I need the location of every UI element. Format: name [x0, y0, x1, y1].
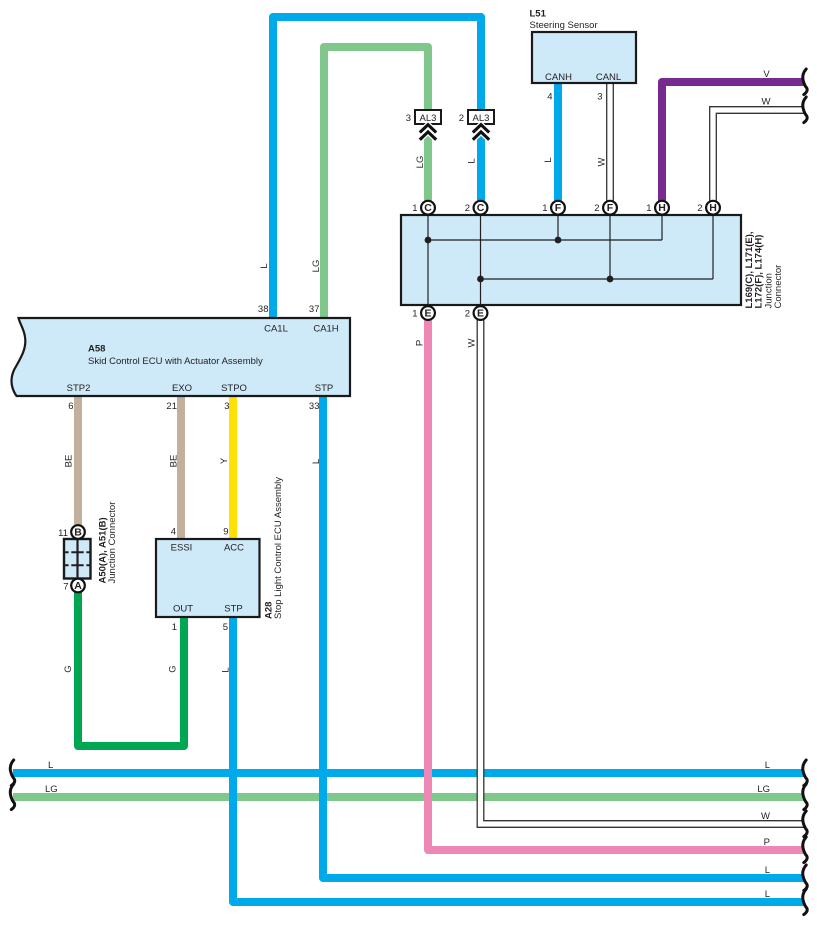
svg-text:1: 1 — [646, 203, 651, 214]
wire L blue CANH to 1F — [554, 83, 562, 202]
svg-text:STP2: STP2 — [67, 383, 91, 394]
svg-text:3: 3 — [224, 401, 229, 412]
svg-text:LG: LG — [45, 784, 58, 795]
svg-text:4: 4 — [171, 527, 176, 538]
svg-text:F: F — [607, 202, 614, 214]
svg-text:Stop Light Control ECU Assembl: Stop Light Control ECU Assembly — [273, 477, 284, 619]
A28 stop light control ECU box — [156, 539, 260, 617]
svg-text:EXO: EXO — [172, 383, 192, 394]
svg-text:W: W — [762, 97, 771, 108]
svg-text:Steering Sensor: Steering Sensor — [530, 20, 598, 31]
svg-text:2: 2 — [465, 203, 470, 214]
pin 2F — [594, 201, 617, 215]
wire LG green top: CA1H to AL3(3) — [324, 47, 428, 318]
svg-text:2: 2 — [594, 203, 599, 214]
svg-text:33: 33 — [309, 401, 320, 412]
pin 1C — [412, 201, 435, 215]
svg-text:21: 21 — [166, 401, 177, 412]
A58 box skid control ECU — [12, 318, 350, 396]
svg-text:LG: LG — [311, 260, 322, 273]
svg-text:W: W — [597, 157, 608, 166]
svg-text:4: 4 — [547, 92, 552, 103]
pin 1E — [412, 306, 435, 320]
svg-text:E: E — [477, 307, 484, 319]
svg-text:ESSI: ESSI — [171, 543, 193, 554]
pin 2E — [465, 306, 488, 320]
svg-text:V: V — [763, 69, 770, 80]
wire L blue from A28 STP pin 5 — [233, 617, 804, 902]
pin 1F — [542, 201, 565, 215]
svg-text:STPO: STPO — [221, 383, 247, 394]
svg-text:9: 9 — [223, 527, 228, 538]
svg-text:L51: L51 — [530, 9, 547, 20]
svg-text:ACC: ACC — [224, 543, 244, 554]
svg-text:6: 6 — [68, 401, 73, 412]
L51 steering sensor box — [532, 32, 636, 83]
svg-text:3: 3 — [406, 113, 411, 124]
wire W white to 2H — [713, 110, 804, 202]
wire L blue from A58 STP pin 33 — [323, 396, 804, 878]
svg-text:AL3: AL3 — [420, 113, 437, 124]
svg-text:G: G — [168, 665, 179, 672]
svg-text:CA1L: CA1L — [264, 324, 288, 335]
svg-text:5: 5 — [223, 622, 228, 633]
torn marks left — [10, 760, 14, 810]
svg-text:A58: A58 — [88, 344, 105, 355]
svg-text:LG: LG — [757, 784, 770, 795]
svg-text:L: L — [311, 459, 322, 464]
svg-text:CANL: CANL — [596, 72, 621, 83]
svg-text:F: F — [555, 202, 562, 214]
svg-text:Junction Connector: Junction Connector — [107, 502, 118, 584]
svg-text:LG: LG — [415, 156, 426, 169]
svg-text:37: 37 — [309, 304, 320, 315]
svg-text:11: 11 — [58, 528, 68, 539]
pin 2C — [465, 201, 488, 215]
svg-text:P: P — [764, 837, 770, 848]
svg-text:1: 1 — [412, 203, 417, 214]
svg-text:7: 7 — [63, 582, 68, 593]
pin 1H — [646, 201, 669, 215]
svg-text:W: W — [761, 811, 770, 822]
svg-text:1: 1 — [542, 203, 547, 214]
svg-text:L: L — [543, 157, 554, 162]
junction connector box L169/L171/L172/L174 — [401, 215, 741, 305]
svg-text:STP: STP — [224, 604, 242, 615]
svg-text:C: C — [477, 202, 485, 214]
pin B A50 — [58, 525, 85, 539]
wire G green U-shape — [78, 592, 184, 746]
svg-text:2: 2 — [459, 113, 464, 124]
wire BE from EXO pin 21 — [177, 396, 185, 539]
svg-text:A: A — [74, 580, 82, 592]
wire P pink from 1E — [428, 320, 804, 850]
svg-text:L: L — [259, 263, 270, 268]
svg-text:BE: BE — [64, 455, 75, 468]
svg-text:L: L — [765, 889, 770, 900]
svg-text:G: G — [63, 665, 74, 672]
svg-text:AL3: AL3 — [473, 113, 490, 124]
svg-text:1: 1 — [172, 622, 177, 633]
svg-text:CA1H: CA1H — [313, 324, 338, 335]
svg-text:L: L — [765, 760, 770, 771]
svg-text:C: C — [424, 202, 432, 214]
A50/A51 junction connector grid — [64, 539, 91, 579]
svg-text:H: H — [709, 202, 717, 214]
svg-text:L: L — [221, 667, 232, 672]
pin 2H — [697, 201, 720, 215]
svg-text:3: 3 — [597, 92, 602, 103]
svg-text:P: P — [415, 340, 426, 346]
torn marks right — [803, 69, 807, 915]
svg-text:STP: STP — [315, 383, 333, 394]
wire bus L blue horizontal — [13, 769, 804, 777]
svg-text:L: L — [48, 760, 53, 771]
svg-text:BE: BE — [169, 455, 180, 468]
svg-text:38: 38 — [258, 304, 269, 315]
svg-text:L: L — [467, 158, 478, 163]
wire Y yellow from STPO pin 3 — [229, 396, 237, 539]
wire W white from 2E — [481, 320, 805, 824]
svg-text:OUT: OUT — [173, 604, 193, 615]
svg-text:2: 2 — [697, 203, 702, 214]
svg-text:W: W — [467, 338, 478, 347]
pin A A50 — [63, 579, 85, 593]
wire BE from STP2 pin 6 — [74, 396, 82, 526]
svg-text:H: H — [658, 202, 666, 214]
svg-text:E: E — [424, 307, 431, 319]
connector AL3 pin 3 — [406, 110, 441, 140]
svg-text:Y: Y — [219, 457, 230, 464]
wire W white CANL to 2F — [606, 83, 614, 202]
svg-text:L: L — [765, 865, 770, 876]
wire L blue top: CA1L to AL3(2) — [273, 17, 481, 318]
wire bus LG green horizontal — [13, 793, 804, 801]
svg-text:CANH: CANH — [545, 72, 572, 83]
svg-text:Connector: Connector — [773, 265, 784, 309]
wire V violet to 1H — [662, 82, 804, 202]
svg-text:2: 2 — [465, 309, 470, 320]
svg-text:B: B — [74, 526, 82, 538]
connector AL3 pin 2 — [459, 110, 494, 140]
svg-text:1: 1 — [412, 309, 417, 320]
svg-text:Skid Control ECU with Actuator: Skid Control ECU with Actuator Assembly — [88, 356, 263, 367]
